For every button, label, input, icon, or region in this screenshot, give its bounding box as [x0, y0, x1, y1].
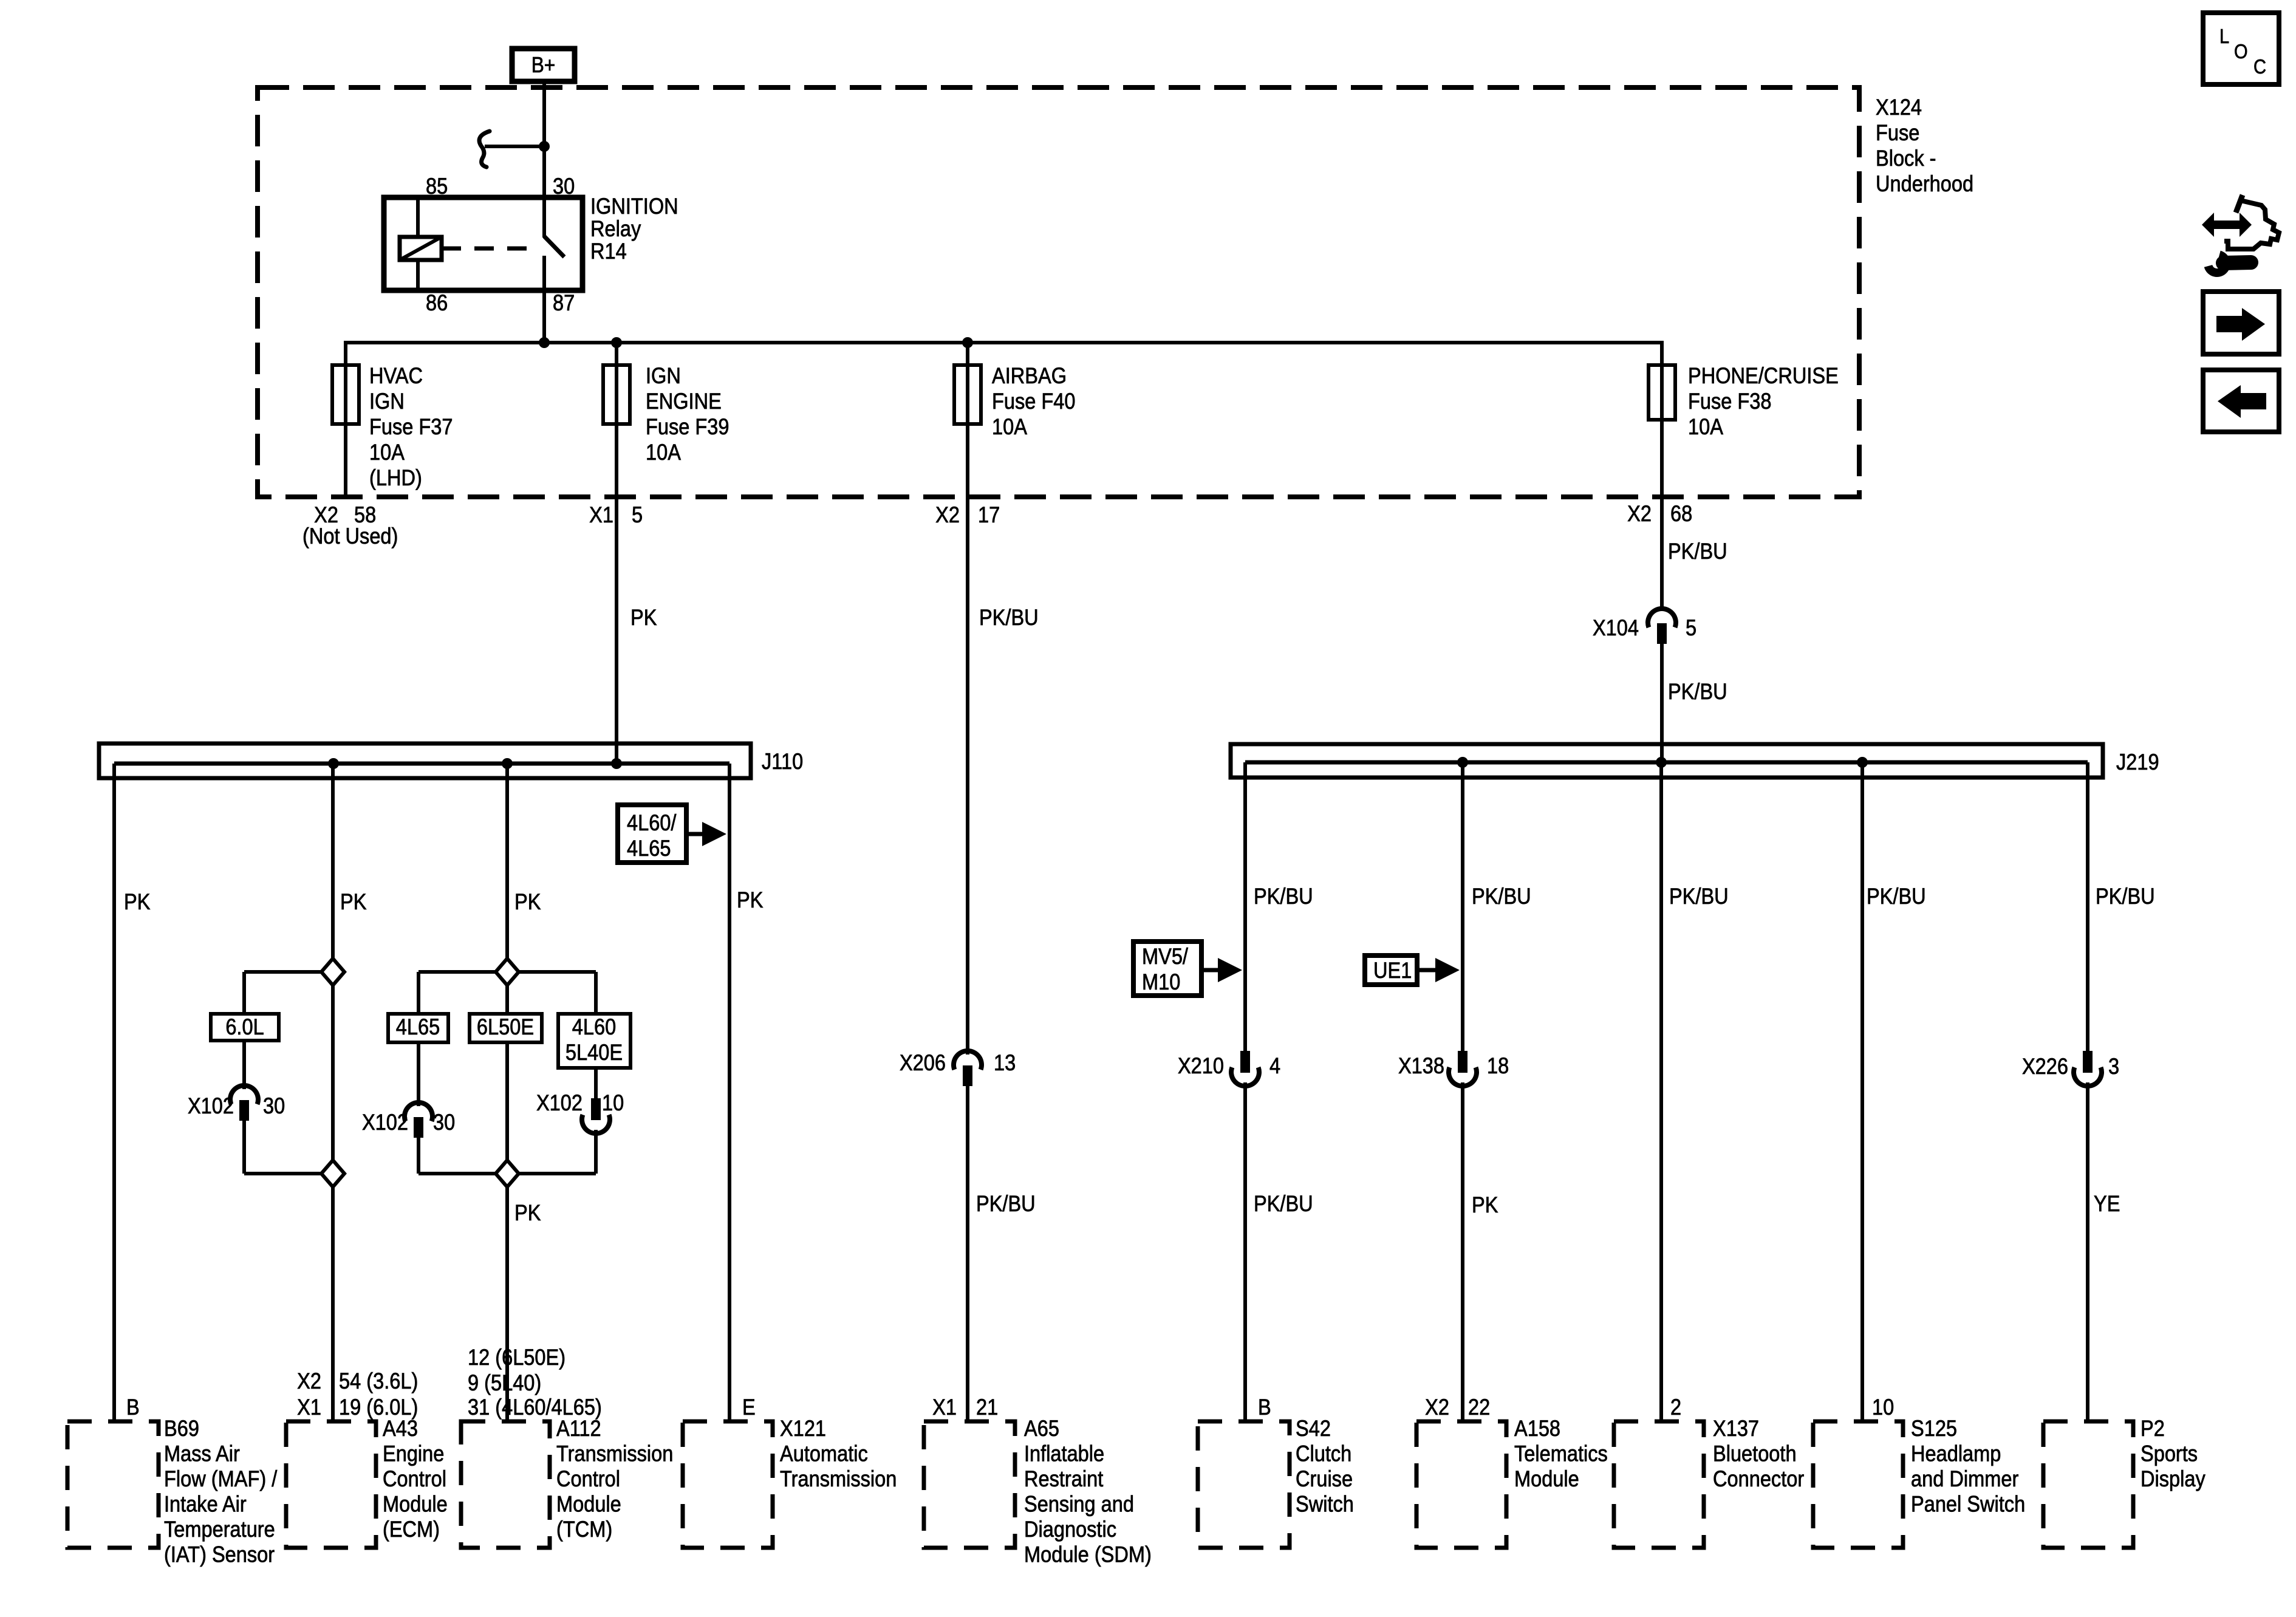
- icon box arrow left: [2203, 370, 2279, 432]
- svg-text:HVAC: HVAC: [369, 363, 423, 388]
- svg-text:PK/BU: PK/BU: [1668, 539, 1727, 564]
- wire hook to junction: [485, 145, 544, 148]
- wire J219 to X210: [1243, 762, 1247, 1051]
- svg-text:Fuse F39: Fuse F39: [646, 414, 729, 439]
- connector X210 pin 4: [1240, 1051, 1250, 1073]
- svg-text:Fuse F37: Fuse F37: [369, 414, 453, 439]
- svg-text:Mass Air: Mass Air: [164, 1441, 240, 1466]
- svg-text:Control: Control: [556, 1466, 620, 1491]
- svg-text:B69: B69: [164, 1416, 199, 1441]
- fuse F38 PHONE/CRUISE: [1649, 365, 1675, 420]
- svg-text:A65: A65: [1024, 1416, 1059, 1441]
- svg-text:(Not Used): (Not Used): [302, 524, 398, 549]
- wire J110 to A43: [331, 764, 335, 1421]
- relay coil wire lower: [416, 260, 420, 290]
- component X121 Automatic Transmission box: [683, 1421, 773, 1548]
- svg-text:Control: Control: [383, 1466, 446, 1491]
- icon vehicle with double arrow and wrench: [2236, 195, 2243, 213]
- svg-text:Bluetooth: Bluetooth: [1713, 1441, 1797, 1466]
- svg-text:6L50E: 6L50E: [477, 1014, 534, 1039]
- svg-text:IGNITION: IGNITION: [590, 194, 678, 219]
- svg-text:Block -: Block -: [1876, 146, 1936, 171]
- battery feed node B+: [512, 49, 575, 81]
- svg-text:86: 86: [426, 290, 448, 315]
- svg-text:PK/BU: PK/BU: [1668, 679, 1727, 704]
- svg-text:3: 3: [2108, 1054, 2119, 1079]
- relay coil wire upper: [416, 197, 420, 238]
- wire to fuse F40 and SDM: [966, 341, 969, 1055]
- splice pack J219 bus line: [1245, 761, 2088, 765]
- callout box 4L60 5L40E: [558, 1014, 630, 1068]
- svg-text:S125: S125: [1911, 1416, 1957, 1441]
- svg-text:21: 21: [976, 1395, 998, 1420]
- junction dot J110/A43: [328, 758, 339, 769]
- svg-text:PK/BU: PK/BU: [976, 1191, 1036, 1216]
- splice pack J110 outer: [99, 744, 751, 778]
- wire X206 to A65: [966, 1085, 969, 1421]
- component B69 MAF/IAT sensor box: [67, 1421, 159, 1548]
- svg-text:PK/BU: PK/BU: [1472, 884, 1531, 909]
- svg-text:10A: 10A: [646, 440, 682, 465]
- wire J219 to X137: [1659, 762, 1663, 1421]
- svg-text:30: 30: [263, 1093, 285, 1118]
- wire 4L65 to X102: [417, 1042, 420, 1106]
- wire J110 to A112: [505, 764, 509, 1421]
- svg-text:4L60: 4L60: [572, 1014, 616, 1039]
- svg-text:Inflatable: Inflatable: [1024, 1441, 1104, 1466]
- svg-text:PHONE/CRUISE: PHONE/CRUISE: [1688, 363, 1839, 388]
- svg-text:68: 68: [1670, 501, 1692, 526]
- svg-text:PK: PK: [1472, 1192, 1498, 1217]
- svg-text:O: O: [2234, 40, 2248, 63]
- svg-text:Diagnostic: Diagnostic: [1024, 1517, 1116, 1542]
- svg-text:Intake Air: Intake Air: [164, 1492, 247, 1517]
- wire bend to fuse F38: [1660, 341, 1664, 611]
- wire branch to 6.0L: [244, 970, 321, 974]
- svg-text:X2: X2: [1425, 1395, 1449, 1420]
- svg-text:Transmission: Transmission: [556, 1441, 673, 1466]
- svg-text:PK: PK: [514, 889, 541, 914]
- svg-text:Module: Module: [383, 1492, 448, 1517]
- relay linkage dashed line: [442, 247, 538, 251]
- junction dot bus/F40: [962, 337, 973, 348]
- svg-text:X102: X102: [536, 1090, 583, 1115]
- svg-text:A43: A43: [383, 1416, 418, 1441]
- wire bus from relay 87: [346, 341, 1662, 344]
- splice pack J219 outer: [1231, 744, 2103, 778]
- callout box 6.0L: [211, 1014, 279, 1041]
- svg-text:X121: X121: [780, 1416, 826, 1441]
- component A43 ECM box: [286, 1421, 376, 1548]
- wire J219 to S125: [1860, 762, 1864, 1421]
- svg-text:X2: X2: [297, 1369, 321, 1393]
- arrow 4L60/4L65 to wire: [686, 832, 706, 836]
- junction dot J219/A158: [1457, 757, 1468, 768]
- svg-text:UE1: UE1: [1373, 958, 1412, 983]
- svg-text:B: B: [126, 1395, 140, 1420]
- svg-text:Relay: Relay: [590, 216, 641, 241]
- junction dot relay87/bus: [539, 337, 550, 348]
- wire 4L60/5L40E to X102: [594, 1068, 598, 1101]
- svg-text:IGN: IGN: [646, 363, 681, 388]
- junction dot J110/A112: [502, 758, 513, 769]
- icon box arrow right: [2203, 292, 2279, 354]
- fuse F40 AIRBAG: [954, 365, 981, 424]
- svg-text:MV5/: MV5/: [1142, 944, 1188, 969]
- wire B+ to relay pin 30: [542, 81, 546, 197]
- wire J110 to B69: [112, 764, 116, 1421]
- svg-text:PK/BU: PK/BU: [1254, 884, 1313, 909]
- svg-text:R14: R14: [590, 239, 627, 264]
- svg-text:A112: A112: [556, 1416, 601, 1441]
- svg-text:X210: X210: [1178, 1053, 1224, 1078]
- diamond A112 lower: [496, 1160, 519, 1187]
- relay coil: [400, 237, 442, 260]
- connector X206 pin 13: [954, 1051, 982, 1070]
- junction dot at B+ wire: [539, 141, 550, 152]
- svg-text:X1: X1: [297, 1395, 321, 1420]
- svg-text:10: 10: [602, 1090, 624, 1115]
- wire branch to 4L60/5L40E: [519, 970, 596, 974]
- component S42 Clutch Cruise Switch box: [1198, 1421, 1290, 1548]
- svg-text:10A: 10A: [992, 414, 1028, 439]
- svg-text:10A: 10A: [369, 440, 405, 465]
- component A65 SDM box: [924, 1421, 1015, 1548]
- svg-text:PK: PK: [737, 887, 763, 912]
- wire 6.0L to X102: [242, 1041, 246, 1089]
- svg-text:Headlamp: Headlamp: [1911, 1441, 2001, 1466]
- fuse F39 IGN ENGINE: [603, 365, 630, 424]
- svg-text:PK/BU: PK/BU: [1867, 884, 1926, 909]
- relay switch output wire pin 87: [542, 256, 546, 343]
- svg-text:PK/BU: PK/BU: [1669, 884, 1729, 909]
- svg-text:J219: J219: [2116, 750, 2159, 774]
- svg-text:2: 2: [1670, 1395, 1681, 1420]
- fuse F37 HVAC IGN: [332, 365, 359, 424]
- svg-text:X137: X137: [1713, 1416, 1759, 1441]
- svg-text:J110: J110: [762, 749, 803, 774]
- svg-text:4L65: 4L65: [627, 836, 671, 861]
- svg-text:9 (5L40): 9 (5L40): [468, 1370, 541, 1395]
- svg-text:Sports: Sports: [2141, 1441, 2198, 1466]
- svg-text:22: 22: [1468, 1395, 1490, 1420]
- svg-text:Transmission: Transmission: [780, 1466, 897, 1491]
- component S125 Headlamp and Dimmer Panel Switch box: [1813, 1421, 1903, 1548]
- svg-text:Module: Module: [556, 1492, 621, 1517]
- component A158 Telematics Module box: [1416, 1421, 1506, 1548]
- svg-text:13: 13: [994, 1050, 1016, 1075]
- callout box 6L50E: [470, 1014, 542, 1042]
- svg-text:Underhood: Underhood: [1876, 171, 1973, 196]
- svg-text:Fuse: Fuse: [1876, 120, 1919, 145]
- fuse block X124 dashed boundary: [258, 87, 1859, 497]
- svg-text:10: 10: [1872, 1395, 1894, 1420]
- svg-text:Switch: Switch: [1296, 1492, 1354, 1517]
- wire X102 to lower diamond (4L65): [417, 1138, 420, 1174]
- junction dot J110 feed: [611, 758, 622, 769]
- diamond A43 lower: [321, 1160, 344, 1187]
- svg-text:A158: A158: [1514, 1416, 1560, 1441]
- svg-text:18: 18: [1487, 1053, 1509, 1078]
- svg-text:E: E: [742, 1395, 756, 1420]
- wire J219 to X226: [2086, 762, 2089, 1051]
- svg-text:Clutch: Clutch: [1296, 1441, 1351, 1466]
- svg-text:B+: B+: [531, 53, 556, 77]
- svg-text:B: B: [1258, 1395, 1271, 1420]
- svg-text:4L65: 4L65: [396, 1014, 440, 1039]
- svg-text:IGN: IGN: [369, 389, 405, 414]
- svg-text:5L40E: 5L40E: [565, 1040, 623, 1065]
- svg-text:(LHD): (LHD): [369, 465, 422, 490]
- relay R14 box: [384, 197, 583, 290]
- svg-text:85: 85: [426, 174, 448, 199]
- svg-text:Sensing and: Sensing and: [1024, 1492, 1134, 1517]
- svg-text:ENGINE: ENGINE: [646, 389, 722, 414]
- svg-text:X2: X2: [1627, 501, 1652, 526]
- svg-text:30: 30: [433, 1110, 455, 1135]
- connector X226 pin 3: [2083, 1051, 2093, 1073]
- svg-text:PK/BU: PK/BU: [2096, 884, 2155, 909]
- svg-text:and Dimmer: and Dimmer: [1911, 1466, 2019, 1491]
- splice pack J110 bus line: [114, 762, 729, 766]
- svg-text:X1: X1: [589, 502, 613, 527]
- svg-text:5: 5: [1686, 615, 1696, 640]
- svg-text:4: 4: [1269, 1053, 1280, 1078]
- svg-text:S42: S42: [1296, 1416, 1331, 1441]
- arrow UE1 to wire: [1417, 968, 1438, 973]
- svg-text:6.0L: 6.0L: [225, 1014, 264, 1039]
- wire X102 to lower diamond (6.0L): [242, 1121, 246, 1174]
- svg-text:Flow (MAF) /: Flow (MAF) /: [164, 1466, 278, 1491]
- svg-text:X206: X206: [900, 1050, 946, 1075]
- svg-text:X2: X2: [935, 502, 960, 527]
- svg-text:54 (3.6L): 54 (3.6L): [339, 1369, 418, 1393]
- svg-text:L: L: [2219, 25, 2229, 47]
- svg-text:87: 87: [553, 290, 575, 315]
- svg-text:17: 17: [978, 502, 1000, 527]
- svg-text:Temperature: Temperature: [164, 1517, 275, 1542]
- svg-text:Fuse F38: Fuse F38: [1688, 389, 1772, 414]
- svg-text:Cruise: Cruise: [1296, 1466, 1353, 1491]
- svg-text:Telematics: Telematics: [1514, 1441, 1608, 1466]
- hook symbol (wire continues): [479, 131, 490, 167]
- callout box MV5/M10: [1133, 942, 1201, 996]
- svg-text:PK: PK: [630, 605, 657, 630]
- svg-text:Restraint: Restraint: [1024, 1466, 1104, 1491]
- svg-text:X1: X1: [932, 1395, 957, 1420]
- svg-text:PK/BU: PK/BU: [979, 605, 1039, 630]
- svg-text:Module (SDM): Module (SDM): [1024, 1542, 1152, 1567]
- svg-text:X226: X226: [2022, 1054, 2068, 1079]
- wire X104 to J219: [1660, 643, 1664, 762]
- svg-text:X138: X138: [1398, 1053, 1444, 1078]
- wire branch to 4L65: [419, 970, 496, 974]
- svg-text:YE: YE: [2094, 1191, 2120, 1216]
- svg-text:10A: 10A: [1688, 414, 1724, 439]
- svg-text:Automatic: Automatic: [780, 1441, 868, 1466]
- svg-text:Engine: Engine: [383, 1441, 444, 1466]
- svg-text:PK: PK: [124, 889, 150, 914]
- relay switch blade: [544, 236, 564, 257]
- callout box UE1: [1365, 955, 1417, 985]
- svg-text:Panel Switch: Panel Switch: [1911, 1492, 2025, 1517]
- wire X226 to P2: [2086, 1082, 2089, 1421]
- junction dot J219/S125: [1857, 757, 1868, 768]
- callout box 4L65: [388, 1014, 448, 1042]
- callout box 4L60/4L65: [618, 805, 686, 863]
- svg-text:PK/BU: PK/BU: [1254, 1191, 1313, 1216]
- wire J219 to X138: [1461, 762, 1464, 1051]
- connector X104 pin 5: [1648, 609, 1676, 627]
- svg-text:X102: X102: [362, 1110, 408, 1135]
- svg-text:PK: PK: [514, 1200, 541, 1225]
- wire to fuse F37: [344, 341, 347, 497]
- svg-text:4L60/: 4L60/: [627, 810, 677, 835]
- svg-text:(ECM): (ECM): [383, 1517, 440, 1542]
- relay switch common wire: [542, 197, 546, 238]
- svg-text:(IAT) Sensor: (IAT) Sensor: [164, 1542, 275, 1567]
- svg-text:C: C: [2253, 55, 2266, 78]
- wire to fuse F39: [615, 341, 618, 764]
- svg-text:Module: Module: [1514, 1466, 1579, 1491]
- svg-text:X102: X102: [188, 1093, 234, 1118]
- diamond A112 upper: [496, 959, 519, 985]
- svg-text:30: 30: [553, 174, 575, 199]
- LOC reference box: [2203, 13, 2279, 84]
- connector X102 pin 30 (4L65): [405, 1102, 432, 1121]
- svg-text:Display: Display: [2141, 1466, 2205, 1491]
- svg-text:X104: X104: [1593, 615, 1639, 640]
- junction dot bus/F39: [611, 337, 622, 348]
- component X137 Bluetooth Connector box: [1614, 1421, 1704, 1548]
- diamond A43 upper: [321, 959, 344, 985]
- component A112 TCM box: [461, 1421, 550, 1548]
- svg-text:PK: PK: [340, 889, 366, 914]
- svg-text:12 (6L50E): 12 (6L50E): [468, 1345, 565, 1370]
- svg-text:AIRBAG: AIRBAG: [992, 363, 1067, 388]
- component P2 Sports Display box: [2043, 1421, 2133, 1548]
- svg-text:Fuse F40: Fuse F40: [992, 389, 1076, 414]
- svg-text:X124: X124: [1876, 95, 1922, 120]
- connector X138 pin 18: [1458, 1051, 1467, 1073]
- arrow MV5/M10 to wire: [1201, 968, 1221, 973]
- svg-text:M10: M10: [1142, 969, 1180, 994]
- svg-text:(TCM): (TCM): [556, 1517, 612, 1542]
- wire X102 to lower diamond (4L60): [594, 1130, 598, 1174]
- svg-text:5: 5: [632, 502, 643, 527]
- connector X102 pin 10: [591, 1098, 601, 1120]
- wire J110 to X121: [728, 764, 731, 1421]
- connector X102 pin 30 (6.0L): [230, 1085, 258, 1104]
- junction dot J219 feed: [1656, 757, 1667, 768]
- wire X210 to S42: [1243, 1082, 1247, 1421]
- wire X138 to A158: [1461, 1082, 1464, 1421]
- svg-text:Connector: Connector: [1713, 1466, 1805, 1491]
- svg-text:P2: P2: [2141, 1416, 2165, 1441]
